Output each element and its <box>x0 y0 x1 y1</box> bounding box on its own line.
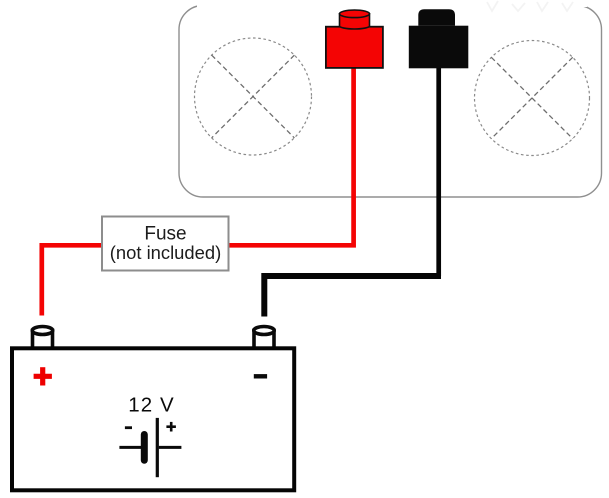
speaker panel outline <box>179 6 602 198</box>
red wire from fuse to battery positive <box>42 245 101 315</box>
black negative terminal body <box>409 26 469 69</box>
left speaker dashed circle <box>195 38 312 155</box>
battery body <box>12 348 294 490</box>
right speaker dashed circle <box>475 41 590 156</box>
right speaker X line 1 <box>491 57 572 138</box>
battery negative post <box>254 327 274 350</box>
cell symbol negative plate <box>141 435 148 461</box>
faint cropped text remnant <box>487 1 573 11</box>
cell symbol left lead <box>119 446 141 449</box>
cell symbol positive plate <box>156 418 159 477</box>
red positive terminal body <box>326 27 383 68</box>
left speaker X line 1 <box>212 55 295 138</box>
cell symbol minus sign <box>125 426 132 429</box>
fuse box <box>102 217 229 271</box>
black negative terminal cap <box>418 9 455 25</box>
svg-text:(not included): (not included) <box>110 242 221 263</box>
battery positive post <box>32 327 52 350</box>
red positive terminal cap cylinder <box>340 10 370 29</box>
panel top edge gap cover <box>197 0 587 7</box>
battery minus label <box>254 374 267 378</box>
battery plus label <box>34 367 52 385</box>
svg-text:12 V: 12 V <box>128 394 175 417</box>
left speaker X line 2 <box>212 55 295 138</box>
cell symbol right lead <box>159 446 182 449</box>
red wire from positive terminal to fuse <box>230 68 354 245</box>
black wire from corner to battery negative <box>264 276 441 317</box>
cell symbol plus sign <box>166 422 176 432</box>
black wire drop from negative terminal <box>436 68 441 276</box>
right speaker X line 2 <box>491 57 572 138</box>
